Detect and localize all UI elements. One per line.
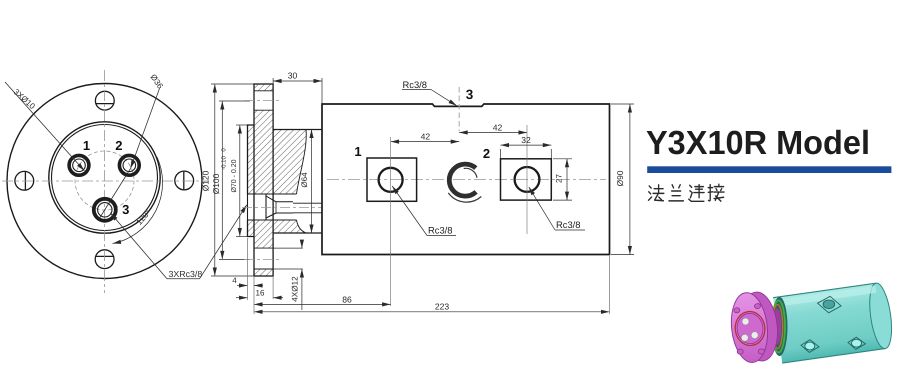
svg-text:3: 3 [122, 202, 129, 217]
svg-text:32: 32 [521, 135, 531, 145]
svg-text:1: 1 [83, 138, 90, 153]
svg-text:Y3X10R Model: Y3X10R Model [646, 125, 870, 162]
svg-text:3XRc3/8: 3XRc3/8 [169, 269, 203, 279]
svg-text:4XØ12: 4XØ12 [291, 276, 300, 302]
svg-text:Ø120: Ø120 [201, 170, 211, 191]
svg-text:2: 2 [483, 146, 490, 161]
svg-text:4: 4 [232, 276, 237, 285]
svg-text:42: 42 [421, 132, 431, 142]
svg-text:223: 223 [435, 302, 450, 312]
svg-text:27: 27 [555, 174, 564, 183]
svg-text:Rc3/8: Rc3/8 [556, 219, 581, 230]
svg-text:Rc3/8: Rc3/8 [403, 79, 428, 90]
svg-text:Ø100: Ø100 [211, 173, 221, 194]
svg-text:1: 1 [354, 144, 361, 159]
svg-text:2: 2 [115, 138, 122, 153]
svg-text:Ø64: Ø64 [300, 172, 309, 188]
svg-text:3: 3 [466, 87, 474, 102]
svg-text:Rc3/8: Rc3/8 [428, 225, 453, 236]
svg-text:16: 16 [256, 289, 265, 298]
svg-text:30: 30 [288, 71, 298, 81]
svg-text:Ø70 - 0.20: Ø70 - 0.20 [230, 159, 238, 192]
svg-text:42: 42 [493, 122, 503, 132]
svg-text:86: 86 [342, 294, 352, 304]
svg-text:Ø90: Ø90 [615, 170, 625, 186]
svg-text:-0.10: -0.10 [221, 156, 228, 170]
